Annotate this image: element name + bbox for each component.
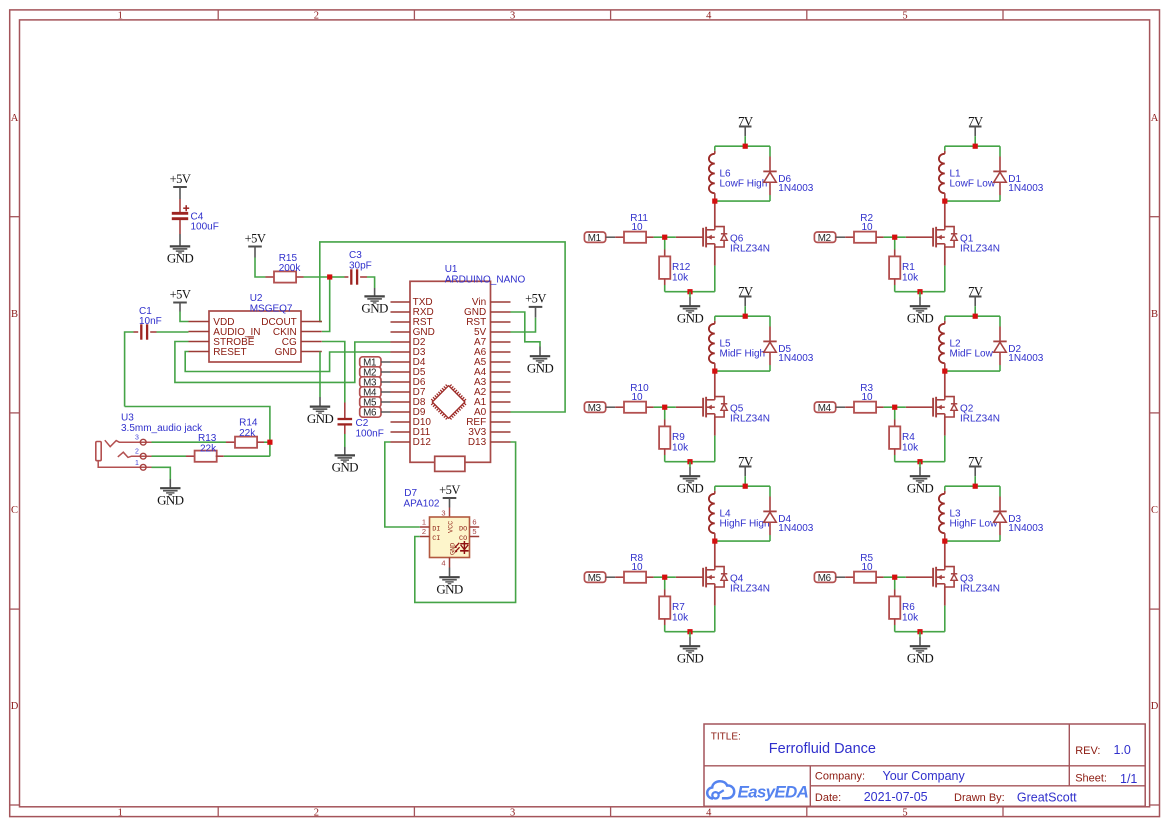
power +5V flag at R15	[248, 246, 262, 248]
svg-text:U3: U3	[121, 413, 134, 424]
wire bottom rail L4	[715, 540, 770, 542]
svg-text:+5V: +5V	[170, 287, 191, 301]
ground GND at Q2	[910, 475, 930, 477]
junction gate node Q3	[892, 575, 897, 580]
svg-text:7V: 7V	[968, 283, 984, 298]
wire C1 left to mixer node	[125, 332, 134, 407]
ground GND at Q5	[680, 475, 700, 477]
wire R13 to node	[224, 455, 270, 457]
svg-text:10k: 10k	[672, 612, 689, 623]
svg-text:C2: C2	[356, 418, 369, 429]
resistor R6 (pulldown)	[894, 577, 896, 589]
wire source bottom rail Q1	[895, 291, 945, 293]
wire R5 to gate	[884, 576, 906, 578]
title block line under company row	[810, 785, 1145, 787]
junction gate node Q6	[662, 235, 667, 240]
wire source bottom rail Q3	[895, 631, 945, 633]
wire R7 to source rail	[664, 625, 666, 632]
connector U3 3.5mm audio jack symbol	[96, 442, 101, 461]
ground GND at D7	[439, 576, 459, 578]
wire source Q3	[944, 587, 946, 606]
svg-text:2021-07-05: 2021-07-05	[864, 790, 928, 804]
junction gate node Q4	[662, 575, 667, 580]
wire M4 to R3	[836, 406, 846, 408]
wire CKIN to R15/C3 node	[322, 277, 330, 332]
svg-text:C3: C3	[349, 250, 362, 261]
svg-text:MidF Low: MidF Low	[950, 349, 994, 360]
svg-text:LowF Low: LowF Low	[950, 179, 996, 190]
svg-text:7V: 7V	[738, 453, 754, 468]
inductor L3	[944, 486, 946, 491]
wire top rail L6	[715, 145, 770, 147]
wire R11 to gate	[654, 236, 676, 238]
svg-text:4: 4	[706, 10, 712, 21]
svg-text:R14: R14	[239, 418, 258, 429]
wire M3 to R10	[606, 406, 616, 408]
svg-text:Ferrofluid Dance: Ferrofluid Dance	[769, 741, 876, 757]
svg-text:Sheet:: Sheet:	[1075, 773, 1107, 785]
svg-text:C1: C1	[139, 306, 152, 317]
svg-text:+5V: +5V	[245, 231, 266, 245]
svg-text:IRLZ34N: IRLZ34N	[960, 414, 1000, 425]
svg-text:GND: GND	[449, 543, 457, 555]
svg-text:RESET: RESET	[213, 347, 246, 358]
chip U2 pins right	[301, 321, 322, 323]
svg-text:+5V: +5V	[525, 292, 546, 306]
junction 7V rail L2	[973, 314, 978, 319]
chip U1 usb tab	[435, 456, 465, 471]
svg-text:22k: 22k	[239, 428, 256, 439]
chip U1 die diamond	[431, 385, 466, 420]
chip U2 pins left	[189, 321, 210, 323]
svg-text:10k: 10k	[672, 272, 689, 283]
wire bottom rail L1	[945, 200, 1000, 202]
power 7V flag at L1	[969, 126, 982, 128]
junction source ground node Q5	[687, 459, 692, 464]
svg-text:DI: DI	[432, 525, 440, 533]
svg-text:IRLZ34N: IRLZ34N	[730, 244, 770, 255]
svg-text:IRLZ34N: IRLZ34N	[730, 584, 770, 595]
net flag M2	[814, 232, 835, 242]
ground GND at Q1	[910, 305, 930, 307]
svg-text:+5V: +5V	[439, 483, 460, 497]
junction node R15/C3/CKIN	[327, 274, 332, 279]
wire node to C3	[330, 276, 345, 278]
svg-text:A: A	[1151, 113, 1159, 124]
svg-text:APA102: APA102	[404, 498, 440, 509]
svg-text:GND: GND	[677, 480, 704, 495]
wire R10 to gate	[654, 406, 676, 408]
svg-text:1: 1	[422, 518, 426, 527]
power +5V flag at C4	[173, 186, 187, 188]
wire drain Q1	[944, 201, 946, 227]
diode D5	[769, 316, 771, 326]
net flag M3 at U1 D6	[360, 377, 381, 387]
svg-text:10k: 10k	[902, 612, 919, 623]
chip D7 pin stubs	[420, 526, 430, 528]
wire source bottom rail Q5	[665, 461, 715, 463]
wire top rail L1	[945, 145, 1000, 147]
svg-text:IRLZ34N: IRLZ34N	[960, 584, 1000, 595]
wire D7 GND to ground	[449, 568, 451, 578]
wire drain Q4	[714, 541, 716, 567]
ground GND at C3	[364, 295, 384, 297]
svg-text:M1: M1	[588, 233, 601, 244]
svg-text:GND: GND	[677, 310, 704, 325]
svg-text:A: A	[11, 113, 19, 124]
svg-text:GND: GND	[907, 310, 934, 325]
junction gate node Q5	[662, 405, 667, 410]
ground GND at Q4	[680, 645, 700, 647]
net flag M6	[814, 572, 835, 582]
net flag M5 at U1 D8	[360, 397, 381, 407]
svg-text:D: D	[1151, 701, 1159, 712]
svg-text:10: 10	[632, 222, 644, 233]
wire jack pin1 to ground	[152, 467, 171, 479]
junction drain node Q6	[712, 199, 717, 204]
frame row ticks right	[1150, 216, 1160, 218]
wire U1 GND to ground	[511, 312, 541, 347]
wire jack pin3 to R14	[152, 441, 227, 443]
svg-text:4: 4	[706, 807, 712, 818]
junction drain node Q3	[942, 539, 947, 544]
chip D7 internal LED symbol	[463, 541, 465, 554]
junction gate node Q1	[892, 235, 897, 240]
resistor R14	[226, 441, 235, 443]
power +5V flag at D7	[443, 497, 457, 499]
svg-text:GND: GND	[332, 460, 359, 475]
svg-text:ARDUINO_NANO: ARDUINO_NANO	[445, 274, 526, 285]
wire source bottom rail Q4	[665, 631, 715, 633]
resistor R7 (pulldown)	[664, 577, 666, 589]
resistor R8	[615, 576, 624, 578]
wire bottom rail L2	[945, 370, 1000, 372]
resistor R2	[845, 236, 854, 238]
wire U1 D13 to D7 CI	[415, 442, 516, 602]
power 7V flag at L3	[969, 466, 982, 468]
svg-text:M6: M6	[818, 573, 832, 584]
resistor R9 (pulldown)	[664, 407, 666, 419]
wire R6 to source rail	[894, 625, 896, 632]
wire R2 to gate	[884, 236, 906, 238]
svg-text:6: 6	[472, 518, 476, 527]
ground GND at audio jack	[160, 487, 180, 489]
wire bottom rail L6	[715, 200, 770, 202]
junction 7V rail L6	[743, 144, 748, 149]
diode D2	[999, 316, 1001, 326]
wire drain Q6	[714, 201, 716, 227]
svg-text:GND: GND	[275, 347, 297, 358]
svg-text:MSGEQ7: MSGEQ7	[250, 303, 293, 314]
resistor R15	[266, 276, 275, 278]
wire to ground Q2	[919, 462, 921, 467]
inductor L6	[714, 146, 716, 151]
svg-text:R15: R15	[279, 253, 298, 264]
wire to ground Q4	[689, 632, 691, 637]
svg-text:10k: 10k	[902, 272, 919, 283]
wire +5V to D7 VCC	[449, 498, 451, 508]
power +5V flag at U2 VDD	[173, 302, 187, 304]
svg-text:100uF: 100uF	[191, 221, 219, 232]
svg-text:D7: D7	[404, 488, 417, 499]
net flag M6 at U1 D9	[360, 407, 381, 417]
svg-text:Your Company: Your Company	[883, 769, 966, 783]
svg-text:HighF High: HighF High	[720, 519, 770, 530]
frame row ticks left	[10, 216, 20, 218]
junction drain node Q2	[942, 369, 947, 374]
capacitor C3	[350, 269, 352, 284]
svg-text:2: 2	[135, 449, 139, 456]
transistor Q4	[676, 576, 703, 578]
wire +5V down to R15 row	[254, 247, 256, 258]
wire 7V to rail	[744, 467, 746, 477]
svg-text:3.5mm_audio jack: 3.5mm_audio jack	[121, 423, 203, 434]
svg-text:C: C	[1151, 505, 1158, 516]
svg-text:LowF High: LowF High	[720, 179, 768, 190]
junction source ground node Q3	[917, 629, 922, 634]
wire R12 to source rail	[664, 285, 666, 292]
junction gate node Q2	[892, 405, 897, 410]
svg-text:100nF: 100nF	[356, 428, 384, 439]
svg-text:R13: R13	[198, 433, 217, 444]
resistor R12 (pulldown)	[664, 237, 666, 249]
resistor R4 (pulldown)	[894, 407, 896, 419]
svg-text:5: 5	[902, 10, 907, 21]
wire R8 to gate	[654, 576, 676, 578]
title block vertical logo cell	[809, 766, 811, 807]
svg-text:1N4003: 1N4003	[778, 353, 813, 364]
svg-text:IRLZ34N: IRLZ34N	[960, 244, 1000, 255]
wire drain Q2	[944, 371, 946, 397]
svg-text:GreatScott: GreatScott	[1017, 791, 1077, 805]
transistor Q6	[676, 236, 703, 238]
wire source Q4	[714, 587, 716, 606]
power +5V flag at U1 5V	[529, 306, 543, 308]
svg-text:1.0: 1.0	[1114, 743, 1131, 757]
svg-text:3: 3	[135, 435, 139, 442]
svg-text:TITLE:: TITLE:	[711, 732, 741, 743]
wire M6 to R5	[836, 576, 846, 578]
svg-text:1N4003: 1N4003	[1008, 183, 1043, 194]
svg-text:B: B	[1151, 309, 1158, 320]
resistor R10	[615, 406, 624, 408]
inductor L2	[944, 316, 946, 321]
power 7V flag at L4	[739, 466, 752, 468]
wire C3 to ground	[360, 276, 367, 278]
wire source Q5	[714, 417, 716, 436]
junction 7V rail L5	[743, 314, 748, 319]
svg-text:7V: 7V	[968, 113, 984, 128]
wire bottom rail L5	[715, 370, 770, 372]
chip U1 body	[410, 281, 491, 462]
svg-text:M2: M2	[818, 233, 831, 244]
title block vertical rev column	[1068, 724, 1070, 786]
svg-text:Date:: Date:	[815, 792, 841, 804]
transistor Q3	[906, 576, 933, 578]
net flag M1 at U1 D4	[360, 357, 381, 367]
wire source bottom rail Q6	[665, 291, 715, 293]
title block line under title row	[704, 765, 1145, 767]
svg-text:7V: 7V	[738, 113, 754, 128]
svg-text:C: C	[11, 505, 18, 516]
ground GND at C4	[170, 245, 190, 247]
svg-text:GND: GND	[907, 480, 934, 495]
svg-text:3: 3	[441, 509, 445, 518]
inductor L1	[944, 146, 946, 151]
wire drain Q3	[944, 541, 946, 567]
svg-text:1N4003: 1N4003	[778, 183, 813, 194]
svg-text:10k: 10k	[902, 442, 919, 453]
svg-text:7V: 7V	[968, 453, 984, 468]
ground GND at U1	[530, 355, 550, 357]
wire M1 to R11	[606, 236, 616, 238]
power 7V flag at L6	[739, 126, 752, 128]
capacitor C1	[134, 331, 139, 333]
transistor Q5	[676, 406, 703, 408]
wire CG to C2	[322, 342, 345, 403]
svg-text:REV:: REV:	[1075, 745, 1100, 757]
wire top rail L2	[945, 315, 1000, 317]
svg-text:10: 10	[632, 392, 644, 403]
svg-text:10: 10	[862, 392, 874, 403]
svg-text:1: 1	[118, 807, 123, 818]
svg-text:2: 2	[314, 10, 319, 21]
svg-text:MidF High: MidF High	[720, 349, 766, 360]
power 7V flag at L5	[739, 296, 752, 298]
junction drain node Q4	[712, 539, 717, 544]
wire RESET to D3	[185, 352, 390, 372]
diode D6	[769, 146, 771, 156]
svg-text:D: D	[11, 701, 19, 712]
resistor R3	[845, 406, 854, 408]
diode D1	[999, 146, 1001, 156]
svg-text:D13: D13	[468, 437, 487, 448]
wire R3 to gate	[884, 406, 906, 408]
transistor Q2	[906, 406, 933, 408]
resistor R1 (pulldown)	[894, 237, 896, 249]
connector U3 pin circles	[140, 439, 146, 445]
diode D4	[769, 486, 771, 496]
wire R14 to node	[264, 441, 270, 443]
wire source bottom rail Q2	[895, 461, 945, 463]
svg-text:Drawn By:: Drawn By:	[954, 792, 1005, 804]
svg-text:1N4003: 1N4003	[1008, 523, 1043, 534]
junction 7V rail L3	[973, 484, 978, 489]
diode D3	[999, 486, 1001, 496]
wire R4 to source rail	[894, 455, 896, 462]
ground GND at U2	[310, 406, 330, 408]
net flag M2 at U1 D5	[360, 367, 381, 377]
ground GND at C2	[335, 454, 355, 456]
svg-text:GND: GND	[361, 301, 388, 316]
svg-text:IRLZ34N: IRLZ34N	[730, 414, 770, 425]
wire mixer node vertical	[125, 407, 270, 457]
svg-text:D12: D12	[413, 437, 432, 448]
svg-text:5: 5	[472, 527, 476, 536]
svg-text:3: 3	[510, 10, 515, 21]
transistor Q1	[906, 236, 933, 238]
wire +5V to U1 5V pin	[535, 307, 537, 318]
svg-text:10: 10	[862, 562, 874, 573]
logo EasyEDA cloud icon	[707, 781, 734, 798]
wire U1 D12 to D7 DI	[385, 442, 420, 527]
capacitor C2	[338, 418, 353, 420]
junction node R13/R14/C1	[267, 440, 272, 445]
wire +5V to C4	[179, 187, 181, 199]
svg-text:M3: M3	[588, 403, 602, 414]
wire C4 to ground	[179, 220, 181, 234]
svg-text:GND: GND	[677, 650, 704, 665]
wire C2 to ground	[344, 426, 346, 435]
svg-text:30pF: 30pF	[349, 261, 372, 272]
chip D7 APA102 body	[430, 517, 470, 558]
frame column ticks top	[217, 10, 219, 20]
wire 7V to rail	[974, 467, 976, 477]
svg-text:CO: CO	[459, 535, 467, 543]
wire M5 to R8	[606, 576, 616, 578]
net flag M5	[584, 572, 605, 582]
resistor R11	[615, 236, 624, 238]
chip U2 body	[209, 311, 301, 362]
svg-text:Company:: Company:	[815, 771, 865, 783]
capacitor C4 (polarized)	[172, 212, 188, 215]
chip U1 pins right	[491, 301, 511, 303]
junction drain node Q1	[942, 199, 947, 204]
svg-text:10: 10	[632, 562, 644, 573]
net flag M4 at U1 D7	[360, 387, 381, 397]
wire 7V to rail	[974, 127, 976, 137]
svg-text:1N4003: 1N4003	[778, 523, 813, 534]
svg-text:GND: GND	[907, 650, 934, 665]
wire source Q2	[944, 417, 946, 436]
svg-text:3: 3	[510, 807, 515, 818]
svg-text:M5: M5	[588, 573, 602, 584]
svg-text:10: 10	[862, 222, 874, 233]
junction 7V rail L1	[973, 144, 978, 149]
wire source Q1	[944, 247, 946, 266]
junction source ground node Q2	[917, 459, 922, 464]
svg-text:B: B	[11, 309, 18, 320]
net flag M4	[814, 402, 835, 412]
svg-text:2: 2	[422, 527, 426, 536]
frame column ticks bottom	[217, 807, 219, 817]
svg-text:GND: GND	[527, 360, 554, 375]
svg-text:EasyEDA: EasyEDA	[738, 782, 809, 801]
wire to ground Q5	[689, 462, 691, 467]
wire to ground Q3	[919, 632, 921, 637]
svg-text:GND: GND	[157, 492, 184, 507]
svg-text:10k: 10k	[672, 442, 689, 453]
wire R9 to source rail	[664, 455, 666, 462]
svg-text:HighF Low: HighF Low	[950, 519, 999, 530]
svg-text:GND: GND	[167, 251, 194, 266]
wire M2 to R2	[836, 236, 846, 238]
power 7V flag at L2	[969, 296, 982, 298]
svg-text:10nF: 10nF	[139, 316, 162, 327]
wire STROBE to D2	[175, 342, 391, 383]
wire top rail L5	[715, 315, 770, 317]
junction 7V rail L4	[743, 484, 748, 489]
ground GND at Q6	[680, 305, 700, 307]
svg-text:22k: 22k	[200, 443, 217, 454]
wire 7V to rail	[744, 127, 746, 137]
net flag M1	[584, 232, 605, 242]
wire +5V to VDD	[179, 303, 181, 312]
wire top rail L3	[945, 485, 1000, 487]
svg-text:M4: M4	[818, 403, 832, 414]
junction source ground node Q1	[917, 289, 922, 294]
svg-text:+5V: +5V	[170, 172, 191, 186]
